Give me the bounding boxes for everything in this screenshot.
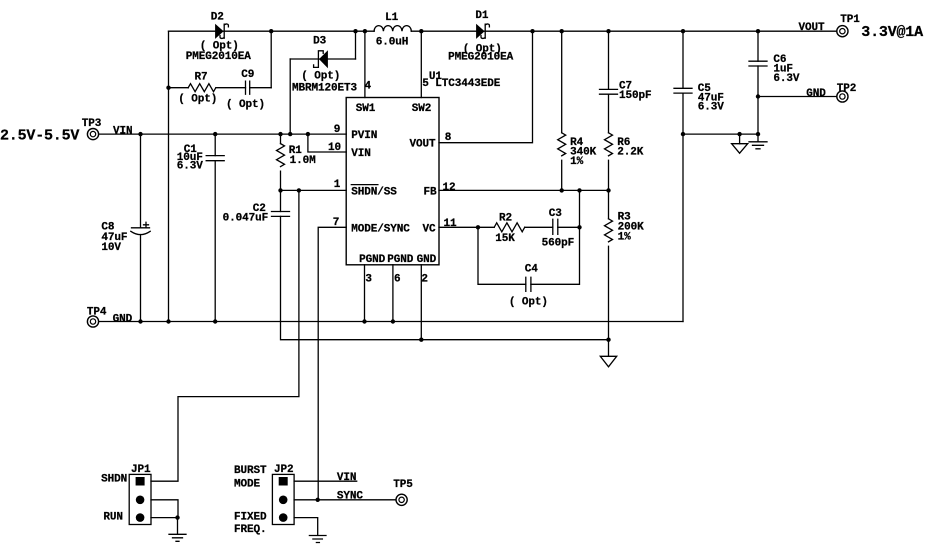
svg-text:FIXED: FIXED [234, 511, 267, 523]
svg-text:2.5V-5.5V: 2.5V-5.5V [0, 127, 79, 144]
svg-text:BURST: BURST [234, 465, 267, 477]
svg-text:PMEG2010EA: PMEG2010EA [448, 52, 514, 64]
svg-text:5 LTC3443EDE: 5 LTC3443EDE [422, 78, 501, 90]
svg-text:11: 11 [443, 218, 457, 230]
svg-text:TP1: TP1 [840, 14, 860, 26]
svg-text:FREQ.: FREQ. [234, 524, 267, 536]
svg-text:PMEG2010EA: PMEG2010EA [186, 51, 252, 63]
svg-text:RUN: RUN [103, 511, 123, 523]
svg-text:( Opt): ( Opt) [226, 99, 265, 111]
svg-text:TP5: TP5 [393, 479, 413, 491]
svg-text:VC: VC [422, 223, 436, 235]
svg-text:PGND: PGND [387, 254, 414, 266]
svg-text:MODE/SYNC: MODE/SYNC [351, 223, 410, 235]
svg-text:GND: GND [113, 314, 133, 326]
svg-text:4: 4 [365, 81, 372, 93]
svg-text:15K: 15K [495, 233, 515, 245]
svg-text:1%: 1% [618, 231, 632, 243]
svg-text:3.3V@1A: 3.3V@1A [861, 24, 923, 41]
svg-text:560pF: 560pF [542, 237, 575, 249]
svg-text:VIN: VIN [337, 472, 357, 484]
svg-text:1%: 1% [570, 156, 584, 168]
svg-text:12: 12 [442, 182, 455, 194]
svg-text:SW2: SW2 [412, 103, 432, 115]
svg-text:( Opt): ( Opt) [509, 297, 548, 309]
svg-text:6.3V: 6.3V [698, 102, 725, 114]
svg-text:1: 1 [334, 179, 341, 191]
svg-text:TP2: TP2 [837, 83, 857, 95]
svg-text:C9: C9 [241, 69, 254, 81]
svg-text:( Opt): ( Opt) [178, 93, 217, 105]
svg-text:6.3V: 6.3V [773, 73, 800, 85]
svg-text:10V: 10V [101, 242, 121, 254]
svg-text:L1: L1 [385, 12, 399, 24]
svg-text:3: 3 [365, 274, 372, 286]
svg-text:C3: C3 [549, 208, 563, 220]
svg-text:PVIN: PVIN [351, 130, 377, 142]
svg-text:8: 8 [445, 132, 452, 144]
svg-text:JP1: JP1 [131, 464, 151, 476]
svg-text:FB: FB [423, 186, 437, 198]
svg-text:GND: GND [417, 254, 437, 266]
svg-text:TP4: TP4 [87, 306, 107, 318]
svg-text:VIN: VIN [113, 126, 133, 138]
svg-text:VIN: VIN [351, 148, 371, 160]
svg-text:6.0uH: 6.0uH [376, 37, 409, 49]
svg-text:7: 7 [333, 217, 340, 229]
svg-text:D3: D3 [313, 36, 327, 48]
svg-text:VOUT: VOUT [798, 22, 825, 34]
svg-text:GND: GND [806, 88, 826, 100]
svg-text:D2: D2 [211, 11, 224, 23]
svg-text:( Opt): ( Opt) [301, 71, 340, 83]
svg-text:6.3V: 6.3V [177, 161, 204, 173]
svg-text:6: 6 [394, 274, 401, 286]
svg-text:2: 2 [421, 274, 428, 286]
svg-text:D1: D1 [475, 10, 489, 22]
svg-text:0.047uF: 0.047uF [223, 212, 269, 224]
svg-text:C4: C4 [525, 264, 539, 276]
svg-text:SHDN: SHDN [101, 474, 127, 486]
svg-text:SYNC: SYNC [337, 490, 364, 502]
svg-text:PGND: PGND [359, 254, 386, 266]
svg-text:SW1: SW1 [356, 103, 376, 115]
svg-text:TP3: TP3 [82, 118, 102, 130]
svg-text:VOUT: VOUT [409, 139, 436, 151]
svg-text:1.0M: 1.0M [290, 155, 317, 167]
svg-text:2.2K: 2.2K [617, 147, 644, 159]
svg-text:MODE: MODE [234, 478, 261, 490]
svg-text:150pF: 150pF [619, 90, 652, 102]
svg-text:R7: R7 [194, 72, 207, 84]
svg-text:MBRM120ET3: MBRM120ET3 [292, 82, 358, 94]
svg-text:SHDN/SS: SHDN/SS [351, 186, 397, 198]
svg-text:JP2: JP2 [274, 464, 294, 476]
svg-text:10: 10 [328, 142, 341, 154]
svg-text:R2: R2 [499, 213, 512, 225]
svg-text:9: 9 [334, 124, 341, 136]
